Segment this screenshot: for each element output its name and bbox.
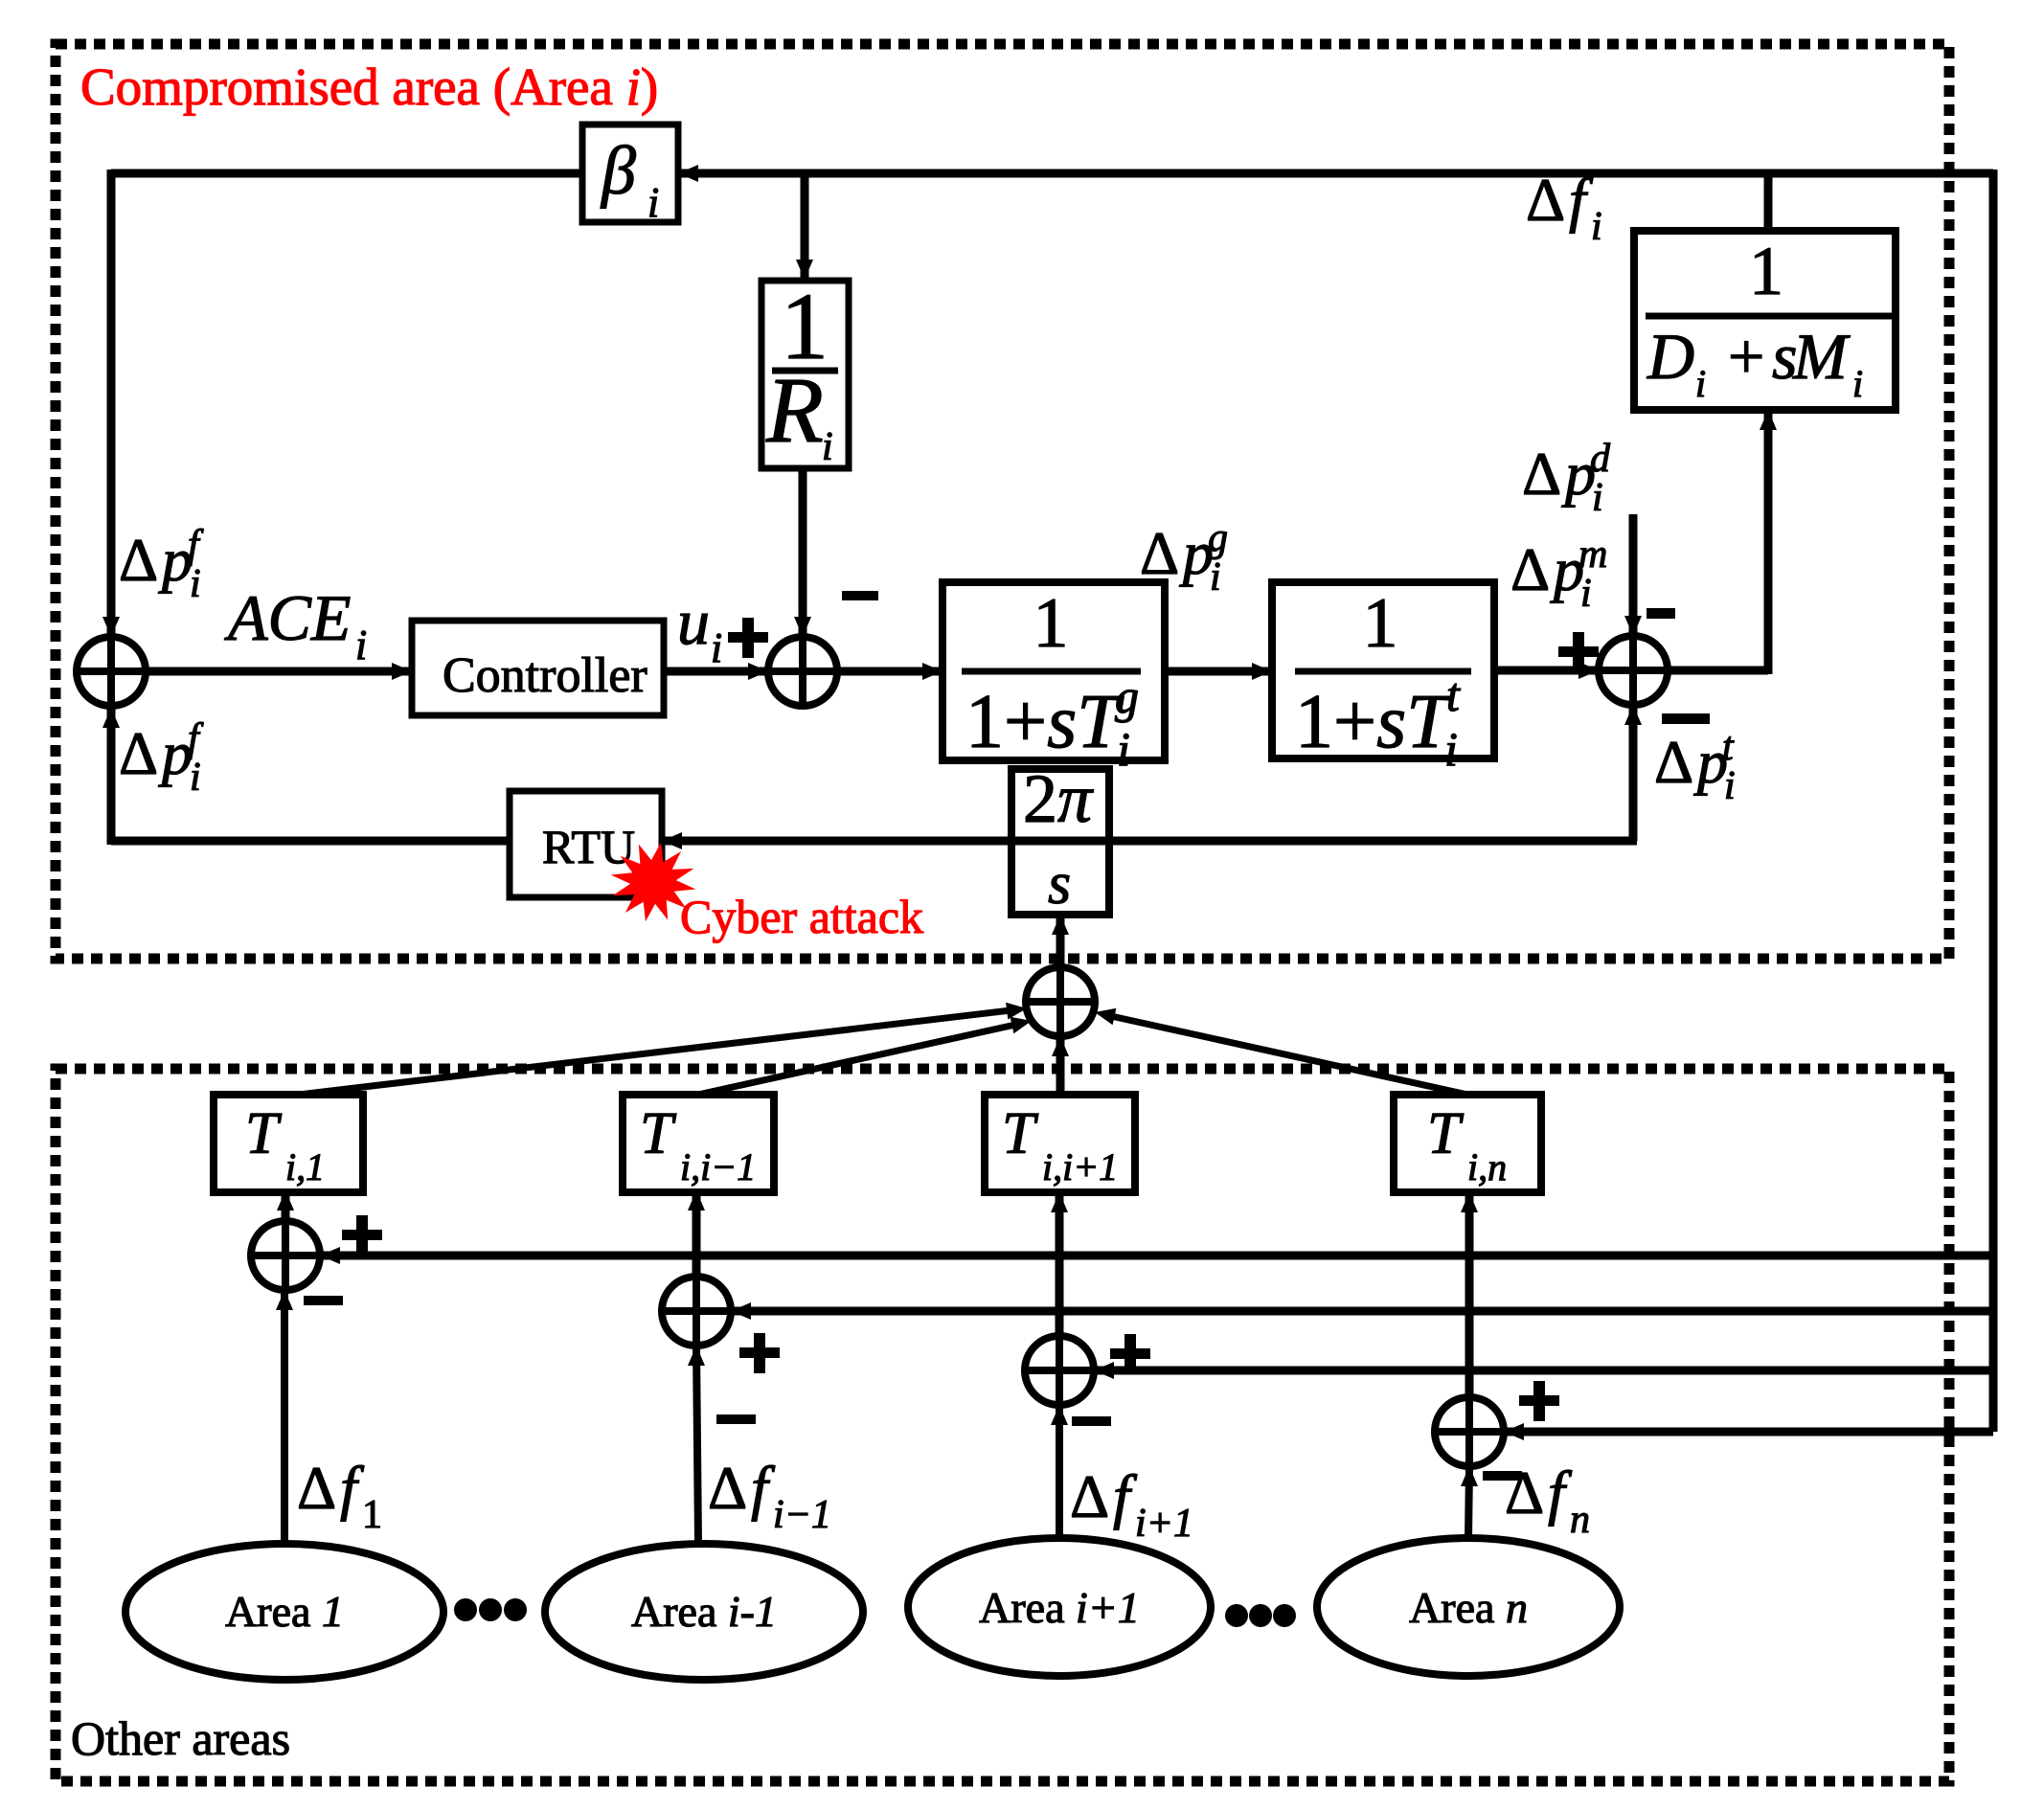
svg-text:i: i <box>1592 476 1603 520</box>
wire rail to junction3b <box>1094 1362 1993 1379</box>
svg-text:d: d <box>1590 437 1611 481</box>
wire central junction up into 2pi/s <box>1052 915 1069 967</box>
svg-text:m: m <box>1578 532 1607 577</box>
plus sign junction1b <box>342 1215 382 1256</box>
svg-text:g: g <box>1115 669 1139 723</box>
svg-text:t: t <box>1446 667 1461 721</box>
svg-text:i: i <box>190 756 201 800</box>
svg-text:Controller: Controller <box>443 648 647 703</box>
svg-text:i: i <box>822 425 833 469</box>
dots left <box>454 1598 527 1621</box>
svg-text:Δ: Δ <box>1526 166 1565 234</box>
wire drop from top line to 1/R block <box>796 170 813 280</box>
wire Area_n up to junction4b <box>1461 1466 1478 1540</box>
block turbine 1/(1+sT_i^t) <box>1272 582 1494 776</box>
label dp_i^d <box>1522 437 1611 520</box>
wire Area1 up to junction1b <box>276 1290 293 1544</box>
summing junction under T_ii-1 <box>662 1277 731 1346</box>
block beta_i <box>582 124 678 226</box>
summing junction 3 <box>1599 636 1668 705</box>
label dp_i^m <box>1510 532 1607 616</box>
plus sign junction2b <box>739 1333 780 1373</box>
svg-text:s: s <box>1048 851 1071 916</box>
ellipse Area i-1 <box>545 1544 863 1680</box>
wire junction up to T_in <box>1461 1192 1478 1397</box>
wire T_ii-1 to central junction <box>698 1017 1032 1095</box>
svg-text:Δ: Δ <box>297 1454 336 1522</box>
svg-text:i: i <box>355 622 367 668</box>
label dp_i^g <box>1140 516 1228 600</box>
plus sign at sum3 left <box>1558 632 1599 672</box>
svg-text:t: t <box>1722 725 1735 769</box>
svg-text:i,1: i,1 <box>285 1145 325 1188</box>
svg-text:R: R <box>765 359 824 463</box>
wire RTU output to sum1 bottom <box>102 708 510 845</box>
wire junction up to T_i1 <box>277 1190 294 1221</box>
svg-text:Other areas: Other areas <box>71 1711 290 1765</box>
svg-text:1: 1 <box>362 1493 382 1537</box>
svg-text:i: i <box>1724 764 1736 808</box>
label df_n <box>1505 1459 1590 1542</box>
svg-text:i: i <box>1591 205 1602 249</box>
label Cyber attack <box>680 890 923 943</box>
svg-text:i,i−1: i,i−1 <box>680 1145 756 1188</box>
block T_in <box>1394 1095 1541 1192</box>
label df_i+1 <box>1070 1462 1193 1546</box>
svg-text:Δ: Δ <box>119 719 158 787</box>
wire controller to sum2 <box>664 663 768 680</box>
label df_1 <box>297 1454 382 1537</box>
ellipse Area 1 <box>125 1544 443 1680</box>
summing junction 1 (ACE) <box>77 637 146 706</box>
svg-text:i−1: i−1 <box>773 1493 831 1537</box>
svg-text:i: i <box>1695 362 1706 405</box>
label ACE_i <box>224 581 367 668</box>
wire rail to junction4b <box>1504 1423 1993 1440</box>
svg-text:Δ: Δ <box>1505 1459 1544 1527</box>
svg-text:n: n <box>1570 1498 1590 1542</box>
minus sign at sum3 bottom right <box>1662 713 1710 724</box>
wire 1/R output to sum2 <box>794 468 811 637</box>
summing junction under T_i1 <box>251 1221 320 1290</box>
svg-text:D: D <box>1647 320 1694 393</box>
svg-text:1: 1 <box>1363 584 1398 663</box>
svg-text:Δ: Δ <box>1070 1462 1109 1530</box>
svg-text:2π: 2π <box>1023 760 1094 837</box>
wire T_in to central junction <box>1095 1008 1467 1095</box>
label dp_i^f upper <box>119 523 204 606</box>
svg-text:i+1: i+1 <box>1135 1502 1193 1546</box>
plus sign at sum2 left <box>728 618 768 658</box>
minus sign at sum3 top right <box>1647 608 1675 619</box>
block RTU <box>510 791 662 897</box>
label Other areas <box>71 1711 290 1765</box>
summing junction 2 (u) <box>768 637 837 706</box>
svg-text:g: g <box>1208 516 1228 560</box>
svg-text:u: u <box>677 585 710 658</box>
label Compromised area (Area i) <box>80 57 658 116</box>
wire sum2 to governor block <box>837 663 943 680</box>
svg-text:i: i <box>647 179 659 226</box>
svg-text:Compromised area (Area i): Compromised area (Area i) <box>80 57 658 116</box>
svg-text:T: T <box>1427 1101 1465 1166</box>
other areas dashed box <box>56 1069 1949 1781</box>
svg-text:T: T <box>1002 1101 1039 1166</box>
summing junction under T_ii+1 <box>1025 1336 1094 1405</box>
svg-text:1: 1 <box>1033 584 1069 663</box>
label u_i <box>677 585 722 671</box>
wire dp_t feedback from sum3 down and left to RTU <box>662 705 1642 849</box>
wire ACE to controller <box>146 663 412 680</box>
svg-text:i: i <box>190 562 201 606</box>
wire rail to junction1b <box>320 1247 1993 1264</box>
wire governor to turbine <box>1165 663 1272 680</box>
central tie-line summing junction <box>1026 967 1095 1036</box>
minus sign at sum2 top <box>842 591 878 600</box>
minus sign junction4b <box>1483 1471 1522 1481</box>
svg-text:Δ: Δ <box>1140 519 1179 587</box>
svg-text:Δ: Δ <box>708 1454 747 1522</box>
block T_ii+1 <box>985 1095 1135 1192</box>
block governor 1/(1+sT_i^g) <box>943 582 1165 776</box>
wire top feedback line into beta <box>678 165 1993 182</box>
svg-text:Area i+1: Area i+1 <box>979 1583 1140 1632</box>
wire turbine to sum3 <box>1494 662 1599 679</box>
dots right <box>1225 1604 1296 1627</box>
compromised area dashed box <box>56 44 1949 959</box>
svg-text:i,n: i,n <box>1467 1145 1507 1188</box>
svg-text:i: i <box>1852 362 1863 405</box>
svg-text:M: M <box>1792 320 1851 393</box>
label df_i <box>1526 166 1602 249</box>
svg-text:1: 1 <box>1749 233 1783 309</box>
svg-text:β: β <box>600 132 636 209</box>
svg-text:Δ: Δ <box>1654 728 1693 796</box>
svg-text:i,i+1: i,i+1 <box>1042 1145 1118 1188</box>
label dp_i^t <box>1654 725 1736 808</box>
block 1/(D_i+sM_i) <box>1634 231 1896 410</box>
wire T_i1 to central junction <box>299 1003 1027 1095</box>
svg-text:RTU: RTU <box>542 820 635 873</box>
cyber attack star <box>611 843 696 922</box>
label dp_i^f lower <box>119 716 204 800</box>
block 2pi/s <box>1011 760 1109 916</box>
block 1/R_i <box>761 273 849 469</box>
plus sign junction4b <box>1519 1381 1559 1421</box>
svg-text:i: i <box>1117 722 1130 776</box>
svg-text:Δ: Δ <box>119 526 158 594</box>
block Controller <box>412 621 664 715</box>
svg-text:Δ: Δ <box>1522 440 1561 508</box>
svg-text:Area n: Area n <box>1409 1583 1528 1632</box>
svg-text:Area i-1: Area i-1 <box>631 1587 777 1636</box>
svg-text:T: T <box>245 1101 283 1166</box>
wire right rail <box>1989 170 1998 1432</box>
wire junction up to T_ii-1 <box>688 1190 705 1277</box>
svg-text:1+sT: 1+sT <box>965 680 1124 764</box>
wire sum3 output to rotating mass block <box>1668 410 1777 674</box>
block T_ii-1 <box>623 1095 774 1192</box>
svg-text:Δ: Δ <box>1510 535 1550 603</box>
svg-text:Area 1: Area 1 <box>225 1587 344 1636</box>
svg-text:Cyber attack: Cyber attack <box>680 890 923 943</box>
label df_i-1 <box>708 1454 831 1537</box>
svg-text:i: i <box>1580 572 1592 616</box>
minus sign junction1b <box>304 1296 343 1305</box>
svg-text:i: i <box>1210 555 1221 600</box>
svg-text:+: + <box>1728 320 1764 393</box>
minus sign junction2b <box>716 1414 756 1424</box>
ellipse Area i+1 <box>908 1538 1211 1676</box>
wire rotating mass output up to top line <box>1764 170 1773 231</box>
summing junction under T_in <box>1435 1397 1504 1466</box>
ellipse Area n <box>1317 1538 1620 1676</box>
plus sign junction3b <box>1110 1334 1150 1374</box>
wire T_ii+1 up to central junction <box>1052 1036 1069 1095</box>
svg-text:ACE: ACE <box>224 581 351 654</box>
wire rail to junction2b <box>731 1302 1993 1320</box>
wire beta output to left rail down to sum1 <box>102 170 582 637</box>
block T_i1 <box>214 1095 363 1192</box>
svg-text:i: i <box>1444 722 1458 776</box>
svg-text:T: T <box>640 1101 677 1166</box>
wire junction up to T_ii+1 <box>1051 1192 1068 1336</box>
wire dp_i^d into sum3 top <box>1624 514 1642 636</box>
svg-text:i: i <box>711 624 722 671</box>
wire Area_i+1 up to junction3b <box>1051 1405 1068 1540</box>
wire Area_i-1 up to junction2b <box>688 1346 705 1544</box>
svg-text:1+sT: 1+sT <box>1295 680 1454 764</box>
minus sign junction3b <box>1072 1416 1111 1426</box>
